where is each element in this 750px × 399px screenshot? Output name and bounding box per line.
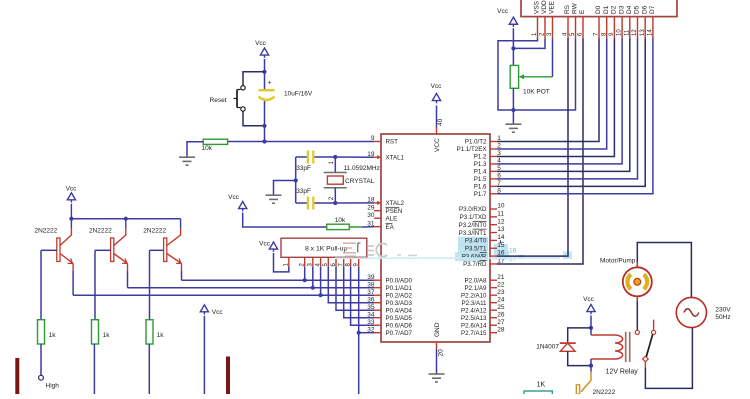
svg-text:23: 23 bbox=[497, 289, 505, 296]
svg-text:13: 13 bbox=[497, 226, 505, 233]
wire to ground (crystal) bbox=[274, 181, 296, 195]
svg-text:P1.2: P1.2 bbox=[474, 154, 487, 161]
junction rail T1 bbox=[69, 217, 73, 221]
node RST junction bbox=[262, 139, 266, 143]
U1 pin 27 P2.6/A14 stub bbox=[490, 324, 497, 326]
U1 pin 22 P2.1/A9 stub bbox=[490, 287, 497, 289]
transistor Q3 2N2222 bbox=[164, 238, 167, 262]
watermark dashes in pull-up box bbox=[343, 243, 356, 253]
ground (crystal) bbox=[266, 194, 282, 196]
U1 pin 31 EA stub bbox=[374, 226, 381, 228]
svg-text:18: 18 bbox=[367, 197, 375, 204]
LCD pin 1 VSS stub bbox=[537, 17, 539, 39]
svg-text:GND: GND bbox=[434, 322, 441, 337]
svg-text:16: 16 bbox=[509, 248, 517, 255]
svg-text:D5: D5 bbox=[634, 5, 641, 14]
svg-text:P3.4/T0: P3.4/T0 bbox=[465, 238, 487, 245]
U1 pin 3 P1.2 stub bbox=[490, 155, 497, 157]
svg-text:D3: D3 bbox=[618, 5, 625, 14]
U1 pin 39 P0.0/AD0 stub bbox=[374, 279, 381, 281]
junction caps-ground bbox=[294, 178, 298, 182]
svg-text:CRYSTAL: CRYSTAL bbox=[345, 178, 375, 185]
svg-text:24: 24 bbox=[497, 296, 505, 303]
wire RN1 pin 6 to P0.4 bbox=[336, 267, 374, 310]
svg-text:14: 14 bbox=[648, 29, 654, 36]
junction relay top bbox=[589, 326, 593, 330]
svg-text:XTAL1: XTAL1 bbox=[386, 154, 405, 161]
resistor 10k (EA) bbox=[327, 224, 350, 229]
U1 pin 30 ALE stub bbox=[374, 217, 381, 219]
U1 pin 23 P2.2/A10 stub bbox=[490, 294, 497, 296]
U1 pin 36 P0.3/AD3 stub bbox=[374, 302, 381, 304]
wire relay to Q4 bbox=[590, 366, 592, 372]
wire 10k to ground bbox=[187, 142, 203, 157]
junction relay bottom bbox=[589, 364, 593, 368]
capacitor 10uF/16V (electrolytic) bbox=[264, 72, 266, 89]
wire 1k (Q3) down bbox=[148, 344, 150, 394]
LCD pin 13 D6 stub bbox=[644, 17, 646, 39]
svg-text:P1.3: P1.3 bbox=[474, 161, 487, 168]
svg-text:D1: D1 bbox=[603, 5, 610, 14]
svg-text:2N2222: 2N2222 bbox=[143, 228, 166, 235]
wire U1 P1.4 to LCD D4 bbox=[497, 39, 630, 172]
wire to diode top bbox=[568, 328, 591, 342]
relay coil 12V Relay bbox=[590, 328, 592, 335]
svg-text:11: 11 bbox=[624, 29, 630, 36]
svg-text:Vcc: Vcc bbox=[497, 8, 509, 15]
svg-text:230V: 230V bbox=[715, 306, 731, 313]
svg-text:50Hz: 50Hz bbox=[715, 314, 730, 321]
svg-text:P1.5: P1.5 bbox=[474, 176, 487, 183]
watermark letter C bbox=[376, 244, 387, 257]
svg-text:P1.0/T2: P1.0/T2 bbox=[465, 139, 487, 146]
power flag Vcc (pull-up) bbox=[269, 242, 277, 249]
svg-text:20: 20 bbox=[437, 349, 444, 357]
U1 pin 9 RST stub bbox=[374, 141, 381, 143]
wire U1 P1.1 to LCD D1 bbox=[497, 39, 607, 149]
resistor 1k (Q2 base) bbox=[92, 320, 99, 344]
U1 pin 26 P2.5/A13 stub bbox=[490, 317, 497, 319]
wire switch pole to AC bbox=[644, 361, 646, 367]
svg-text:10k: 10k bbox=[202, 145, 213, 152]
transistor Q1 2N2222 bbox=[57, 238, 60, 262]
wire RN1 pin 9 to P0.7 and sensor line bbox=[358, 267, 360, 394]
svg-text:P2.5/A13: P2.5/A13 bbox=[461, 315, 487, 322]
LCD pin 3 VEE stub bbox=[552, 17, 554, 39]
RN1 pin 8 stub bbox=[350, 257, 352, 267]
U1 pin 12 P3.2/INT0 stub bbox=[490, 224, 497, 226]
RN1 pin 5 stub bbox=[327, 257, 329, 267]
svg-text:2N2222: 2N2222 bbox=[593, 389, 616, 394]
power flag Vcc (transistors) bbox=[67, 193, 75, 200]
svg-text:P0.2/AD2: P0.2/AD2 bbox=[386, 292, 413, 299]
U1 pin 16 P3.6/WR stub bbox=[490, 255, 497, 257]
wire XTAL1 to U1 pin 19 bbox=[335, 156, 374, 158]
svg-text:10k: 10k bbox=[335, 217, 346, 224]
RN1 pin 7 stub bbox=[343, 257, 345, 267]
svg-text:40: 40 bbox=[437, 118, 444, 126]
relay switch contact right stub bbox=[653, 320, 655, 331]
svg-text:+: + bbox=[267, 80, 271, 87]
LCD pin 4 RS stub bbox=[567, 17, 569, 39]
svg-text:26: 26 bbox=[497, 311, 505, 318]
wire Q1 base down bbox=[40, 250, 42, 319]
U1 pin 14 P3.4/T0 stub bbox=[490, 239, 497, 241]
watermark dashes bbox=[397, 254, 417, 256]
svg-text:P2.2/A10: P2.2/A10 bbox=[461, 292, 487, 299]
LCD pin 10 D3 stub bbox=[621, 17, 623, 39]
wire U1 P1.3 to LCD D3 bbox=[497, 39, 622, 164]
svg-text:VDD: VDD bbox=[541, 0, 548, 14]
svg-text:P0.4/AD4: P0.4/AD4 bbox=[386, 307, 413, 314]
node XTAL1 bbox=[333, 155, 337, 159]
svg-text:P3.5/T1: P3.5/T1 bbox=[465, 245, 487, 252]
power flag Vcc (reset) bbox=[260, 48, 268, 55]
svg-text:P1.6: P1.6 bbox=[474, 184, 487, 191]
terminal High bbox=[39, 375, 44, 380]
svg-text:P0.1/AD1: P0.1/AD1 bbox=[386, 285, 413, 292]
wire RS to U1 P3.6 bbox=[497, 39, 568, 257]
svg-text:11: 11 bbox=[497, 210, 504, 217]
wire RST to U1 pin 9 bbox=[265, 141, 375, 143]
svg-text:12V Relay: 12V Relay bbox=[606, 368, 639, 375]
wire U1 P1.7 to LCD D7 bbox=[497, 39, 653, 194]
U1 pin 35 P0.4/AD4 stub bbox=[374, 309, 381, 311]
capacitor 33pF (bottom) bbox=[307, 197, 309, 210]
wire VSS to ground rail bbox=[498, 39, 538, 111]
U1 pin 1 P1.0/T2 stub bbox=[490, 141, 497, 143]
wire RN1 pin 7 to P0.5 bbox=[344, 267, 374, 318]
wire 10k to U1 pin 31 bbox=[349, 226, 362, 228]
svg-text:VSS: VSS bbox=[534, 0, 541, 14]
svg-text:25: 25 bbox=[497, 304, 505, 311]
ground (LCD) bbox=[512, 110, 514, 124]
ground (reset) bbox=[179, 156, 195, 158]
svg-text:33pF: 33pF bbox=[296, 165, 311, 172]
watermark highlight P3.4-P3.6 bbox=[458, 237, 488, 246]
svg-text:ALE: ALE bbox=[386, 215, 398, 222]
svg-text:P0.7/AD7: P0.7/AD7 bbox=[386, 330, 413, 337]
svg-text:10uF/16V: 10uF/16V bbox=[284, 90, 313, 97]
U1 pin 33 P0.6/AD6 stub bbox=[374, 324, 381, 326]
svg-text:2N2222: 2N2222 bbox=[89, 228, 112, 235]
svg-text:D7: D7 bbox=[649, 5, 656, 14]
wire P0.7 row bbox=[359, 332, 374, 334]
svg-text:P3.3/INT1: P3.3/INT1 bbox=[459, 230, 487, 237]
LCD pin 6 E stub bbox=[582, 17, 584, 39]
wire Vcc rail bbox=[71, 218, 180, 220]
svg-text:11.0592MHz: 11.0592MHz bbox=[344, 165, 380, 172]
LCD pin 2 VDD stub bbox=[544, 17, 546, 39]
junction reset top bbox=[262, 70, 266, 74]
wire Vcc to VDD junction bbox=[512, 28, 514, 48]
resistor 1k (Q3 base) bbox=[146, 320, 153, 344]
svg-text:28: 28 bbox=[497, 326, 505, 333]
wire RN1 pin 3 to P0.1 bbox=[312, 267, 314, 288]
svg-text:21: 21 bbox=[497, 274, 505, 281]
wire U1 P1.6 to LCD D6 bbox=[497, 39, 645, 187]
U1 pin 5 P1.4 stub bbox=[490, 170, 497, 172]
svg-text:P2.6/A14: P2.6/A14 bbox=[461, 322, 487, 329]
resistor 10k (reset pulldown) bbox=[228, 141, 265, 143]
svg-text:2N2222: 2N2222 bbox=[35, 228, 58, 235]
U1 pin 29 PSEN stub bbox=[374, 210, 381, 212]
svg-text:Vcc: Vcc bbox=[583, 296, 595, 303]
power flag Vcc (LCD) bbox=[509, 17, 517, 24]
svg-text:1k: 1k bbox=[49, 332, 57, 339]
svg-text:P1.4: P1.4 bbox=[474, 169, 487, 176]
svg-text:1K: 1K bbox=[537, 382, 546, 389]
svg-text:High: High bbox=[46, 383, 60, 390]
crystal 11.0592MHz bbox=[334, 157, 336, 173]
wire to RST node bbox=[264, 126, 266, 142]
wire push button bottom bbox=[243, 111, 265, 126]
LCD pin 8 D1 stub bbox=[606, 17, 608, 39]
wire RN1 pin 2 to P0.0 bbox=[304, 267, 306, 280]
svg-text:E: E bbox=[579, 9, 586, 14]
svg-text:RW: RW bbox=[572, 2, 579, 14]
U1 pin 11 P3.1/TXD stub bbox=[490, 216, 497, 218]
svg-text:29: 29 bbox=[367, 204, 375, 211]
svg-text:12: 12 bbox=[497, 218, 505, 225]
svg-text:Vcc: Vcc bbox=[212, 309, 224, 316]
node XTAL2 bbox=[333, 201, 337, 205]
LCD pin 11 D4 stub bbox=[629, 17, 631, 39]
power flag Vcc (probe common) bbox=[200, 305, 208, 312]
svg-text:Reset: Reset bbox=[210, 97, 227, 104]
RN1 pin 9 stub bbox=[358, 257, 360, 267]
wire U1 P1.5 to LCD D5 bbox=[497, 39, 638, 179]
potentiometer 10K POT bbox=[510, 65, 518, 88]
svg-text:1N4007: 1N4007 bbox=[536, 343, 559, 350]
diode 1N4007 bbox=[560, 342, 576, 344]
U1 pin 13 P3.3/INT1 stub bbox=[490, 232, 497, 234]
svg-text:27: 27 bbox=[497, 319, 505, 326]
LCD pin 9 D2 stub bbox=[613, 17, 615, 39]
wire motor top bbox=[637, 243, 691, 298]
U1 pin 32 P0.7/AD7 stub bbox=[374, 332, 381, 334]
svg-text:10K POT: 10K POT bbox=[523, 89, 550, 96]
motor M1 Motor/Pump symbol bbox=[623, 267, 652, 296]
svg-text:Vcc: Vcc bbox=[431, 83, 443, 90]
AC source V1 230V 50Hz bbox=[676, 297, 706, 327]
transistor Q2 2N2222 bbox=[111, 238, 114, 262]
capacitor 33pF (top) bbox=[307, 151, 309, 164]
svg-text:P3.0/RXD: P3.0/RXD bbox=[459, 206, 487, 213]
U1 pin 4 P1.3 stub bbox=[490, 163, 497, 165]
power flag Vcc (EA) bbox=[239, 202, 247, 209]
svg-text:P2.0/A8: P2.0/A8 bbox=[464, 277, 487, 284]
svg-text:P3.2/INT0: P3.2/INT0 bbox=[459, 222, 487, 229]
svg-text:VEE: VEE bbox=[549, 0, 556, 14]
U1 pin 21 P2.0/A8 stub bbox=[490, 279, 497, 281]
op IC U1 AT89C51 body bbox=[381, 134, 490, 342]
watermark cyan line bbox=[335, 257, 560, 259]
svg-text:33pF: 33pF bbox=[296, 188, 311, 195]
U1 pin 28 P2.7/A15 stub bbox=[490, 332, 497, 334]
relay switch contact left bbox=[635, 330, 639, 334]
LCD pin 7 D0 stub bbox=[598, 17, 600, 39]
svg-text:P2.4/A12: P2.4/A12 bbox=[461, 307, 487, 314]
relay core bars bbox=[625, 332, 627, 362]
U1 pin 20 GND bbox=[436, 342, 438, 349]
svg-text:10: 10 bbox=[497, 203, 505, 210]
svg-text:P2.7/A15: P2.7/A15 bbox=[461, 330, 487, 337]
wire Q3 base down bbox=[149, 250, 151, 319]
wire Q2 base down bbox=[94, 250, 96, 319]
RN1 pin 4 stub bbox=[320, 257, 322, 267]
probe electrode right bbox=[226, 357, 230, 395]
ground (U1) bbox=[429, 373, 445, 375]
svg-text:13: 13 bbox=[640, 29, 646, 36]
svg-text:P3.6/WR: P3.6/WR bbox=[462, 253, 487, 260]
svg-text:XTAL2: XTAL2 bbox=[386, 200, 405, 207]
svg-text:P2.3/A11: P2.3/A11 bbox=[462, 300, 488, 307]
wire VEE to pot wiper bbox=[552, 39, 554, 77]
power flag Vcc (U1) bbox=[432, 94, 440, 101]
wire motor bottom to switch bbox=[636, 296, 638, 330]
U1 pin 6 P1.5 stub bbox=[490, 178, 497, 180]
svg-text:Motor/Pump: Motor/Pump bbox=[600, 258, 636, 265]
wire caps common bbox=[295, 157, 297, 203]
RN1 pin 2 stub bbox=[304, 257, 306, 267]
resistor 1k (Q1 base) bbox=[38, 320, 45, 344]
RN1 pin 6 stub bbox=[335, 257, 337, 267]
U1 pin 8 P1.7 stub bbox=[490, 193, 497, 195]
svg-text:8 x 1K Pull-up: 8 x 1K Pull-up bbox=[305, 245, 348, 252]
U1 pin 15 P3.5/T1 stub bbox=[490, 247, 497, 249]
wire U1 P1.2 to LCD D2 bbox=[497, 39, 614, 157]
U1 pin 40 VCC bbox=[436, 127, 438, 134]
svg-text:PSEN: PSEN bbox=[386, 208, 403, 215]
push button Reset bbox=[241, 86, 245, 90]
svg-text:RST: RST bbox=[386, 139, 399, 146]
svg-text:P3.1/TXD: P3.1/TXD bbox=[460, 214, 487, 221]
wire pull-up pin1 to Vcc bbox=[274, 253, 289, 272]
svg-text:EA: EA bbox=[386, 224, 395, 231]
svg-text:31: 31 bbox=[367, 220, 375, 227]
U1 pin 19 XTAL1 stub bbox=[374, 156, 381, 158]
wire E to U1 P3.7 bbox=[497, 39, 583, 265]
junction rail T2 bbox=[124, 217, 128, 221]
U1 pin 24 P2.3/A11 stub bbox=[490, 302, 497, 304]
wire Vcc to reset node bbox=[264, 59, 266, 72]
svg-text:P1.1/T2EX: P1.1/T2EX bbox=[457, 146, 487, 153]
svg-text:10: 10 bbox=[617, 29, 623, 36]
U1 pin 7 P1.6 stub bbox=[490, 185, 497, 187]
svg-text:D2: D2 bbox=[611, 5, 618, 14]
svg-text:15: 15 bbox=[497, 242, 505, 249]
U1 pin 37 P0.2/AD2 stub bbox=[374, 294, 381, 296]
svg-text:P1.7: P1.7 bbox=[474, 191, 487, 198]
wire pot bottom bbox=[512, 88, 514, 110]
svg-text:P3.7/RD: P3.7/RD bbox=[463, 261, 487, 268]
resistor network 8 x 1K Pull-up box bbox=[281, 238, 367, 257]
svg-text:Vcc: Vcc bbox=[228, 194, 240, 201]
wire P0.2 row to Q1 emitter bbox=[73, 294, 374, 296]
svg-text:14: 14 bbox=[497, 234, 505, 241]
svg-text:P0.5/AD5: P0.5/AD5 bbox=[386, 315, 413, 322]
svg-text:P0.3/AD3: P0.3/AD3 bbox=[386, 300, 413, 307]
svg-text:30: 30 bbox=[367, 212, 375, 219]
watermark letter E bbox=[345, 255, 356, 257]
U1 pin 34 P0.5/AD5 stub bbox=[374, 317, 381, 319]
LCD pin 12 D5 stub bbox=[637, 17, 639, 39]
svg-text:Vcc: Vcc bbox=[255, 40, 267, 47]
LCD pin 5 RW stub bbox=[575, 17, 577, 39]
wire to push button top bbox=[243, 72, 265, 86]
wire P0.0 row to Q3 emitter bbox=[182, 279, 375, 281]
wire to pot top bbox=[512, 48, 514, 65]
svg-text:12: 12 bbox=[632, 29, 638, 36]
U1 pin 2 P1.1/T2EX stub bbox=[490, 148, 497, 150]
svg-text:D4: D4 bbox=[626, 5, 633, 14]
wire RN1 pin 8 to P0.6 bbox=[351, 267, 374, 325]
svg-text:P2.1/A9: P2.1/A9 bbox=[464, 285, 487, 292]
wire 1k (Q2) down bbox=[93, 344, 95, 394]
U1 pin 17 P3.7/RD stub bbox=[490, 263, 497, 265]
svg-text:D6: D6 bbox=[641, 5, 648, 14]
relay switch blade bbox=[646, 334, 653, 357]
svg-text:P0.0/AD0: P0.0/AD0 bbox=[386, 277, 413, 284]
svg-text:P0.6/AD6: P0.6/AD6 bbox=[386, 322, 413, 329]
transistor Q4 2N2222 (partial) bbox=[581, 372, 591, 392]
power flag Vcc (relay) bbox=[587, 305, 595, 312]
wire 1k to High terminal bbox=[40, 344, 42, 375]
wire RN1 pin 5 to P0.3 bbox=[328, 267, 374, 303]
wire XTAL2 to U1 pin 18 bbox=[335, 202, 374, 204]
LCD pin 14 D7 stub bbox=[652, 17, 654, 39]
svg-text:D0: D0 bbox=[595, 5, 602, 14]
junction pot-ground bbox=[511, 108, 515, 112]
junction reset bottom bbox=[262, 124, 266, 128]
probe electrode left bbox=[15, 358, 19, 394]
wire RN1 pin 4 to P0.2 bbox=[320, 267, 322, 295]
svg-text:9: 9 bbox=[371, 135, 375, 142]
RN1 pin 1 stub bbox=[288, 257, 290, 267]
U1 pin 18 XTAL2 stub bbox=[374, 202, 381, 204]
svg-text:19: 19 bbox=[367, 151, 375, 158]
wire U1 P1.0 to LCD D0 bbox=[497, 39, 599, 142]
junction Vcc-VDD bbox=[511, 46, 515, 50]
stub hook P3.4 bbox=[500, 240, 502, 243]
svg-text:Vcc: Vcc bbox=[259, 241, 271, 248]
svg-text:22: 22 bbox=[497, 281, 505, 288]
U1 pin 38 P0.1/AD1 stub bbox=[374, 287, 381, 289]
U1 pin 25 P2.4/A12 stub bbox=[490, 309, 497, 311]
svg-text:VCC: VCC bbox=[434, 138, 441, 152]
watermark letter Xi bbox=[368, 246, 374, 255]
wire VDD bbox=[513, 39, 545, 49]
svg-text:Vcc: Vcc bbox=[66, 186, 78, 193]
wire RW to ground rail bbox=[513, 39, 575, 111]
connector LCD header box bbox=[521, 0, 677, 17]
svg-text:1k: 1k bbox=[103, 332, 111, 339]
wire Vcc to 10k bbox=[243, 213, 327, 228]
RN1 pin 3 stub bbox=[312, 257, 314, 267]
wire diode bottom bbox=[568, 351, 591, 365]
relay switch pole bbox=[643, 356, 649, 362]
svg-text:1k: 1k bbox=[157, 332, 165, 339]
svg-text:RS: RS bbox=[564, 4, 571, 14]
U1 pin 10 P3.0/RXD stub bbox=[490, 208, 497, 210]
wire P0.1 row to Q2 emitter bbox=[128, 287, 375, 289]
